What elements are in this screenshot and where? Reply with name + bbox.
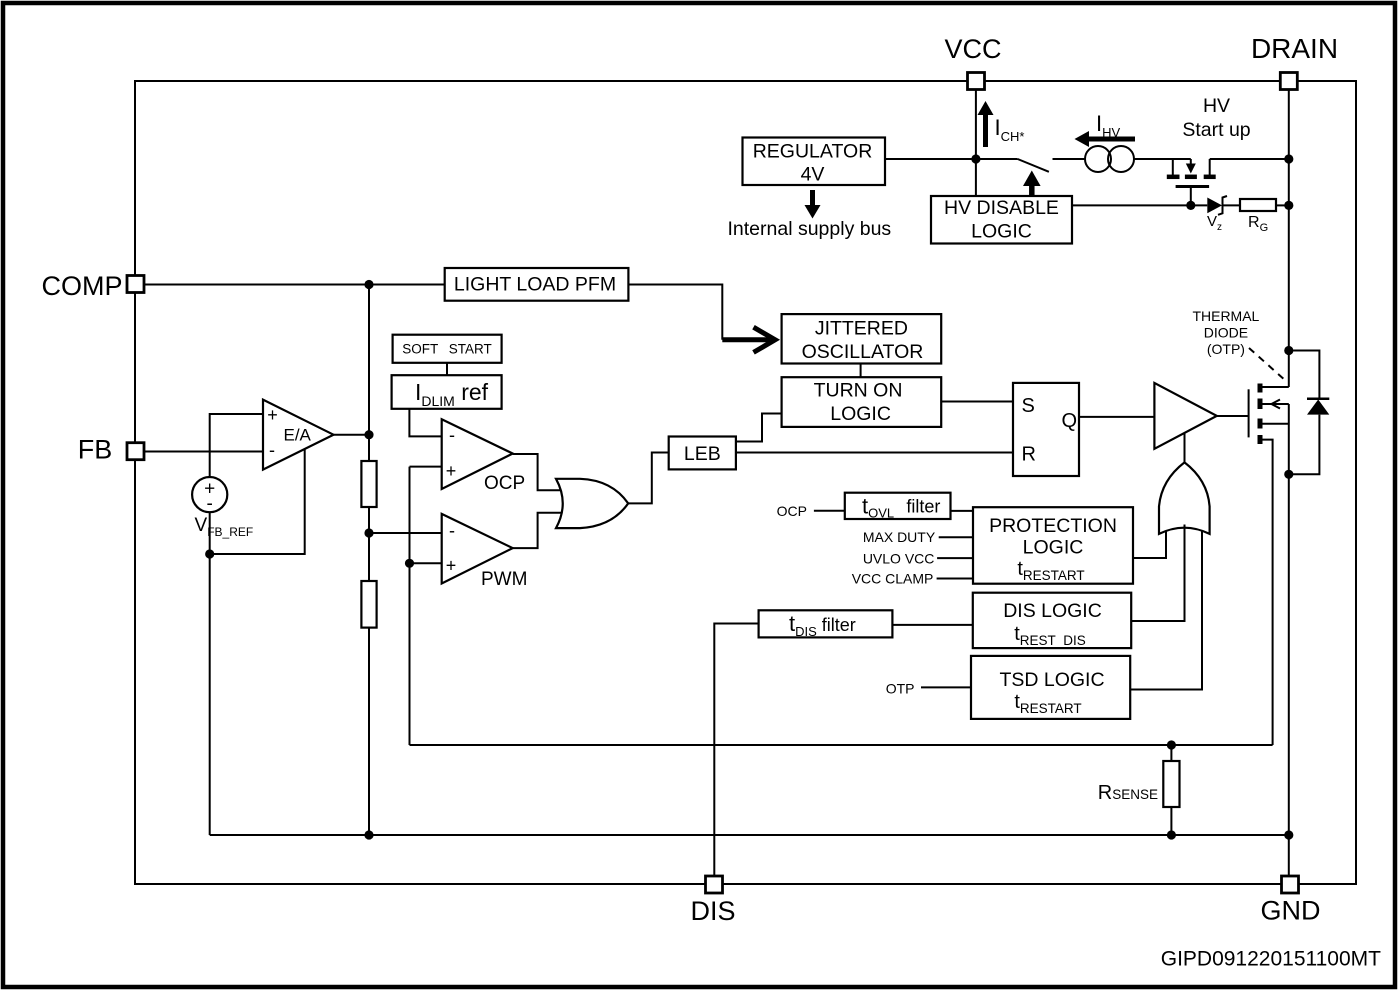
- op-amp PWM comparator: [442, 514, 528, 590]
- regulator U-REG box: [743, 138, 886, 186]
- svg-text:Q: Q: [1062, 410, 1078, 432]
- wire turn on logic to latch S: [941, 401, 1013, 403]
- svg-text:TURN ON: TURN ON: [814, 380, 903, 402]
- wire EA noninverting input to vref: [210, 414, 263, 477]
- svg-text:DIS: DIS: [690, 896, 735, 926]
- transistor Q-HV startup source lead: [1167, 159, 1180, 177]
- svg-text:HV DISABLE: HV DISABLE: [944, 197, 1059, 219]
- transistor Q-HV gate plate: [1176, 187, 1210, 206]
- svg-text:E/A: E/A: [284, 426, 312, 445]
- wire vref junction to gnd rail: [209, 554, 211, 835]
- node VCC-regulator junction: [971, 154, 980, 163]
- transistor Q-HV drain lead: [1204, 159, 1216, 177]
- wire LEB to turn on logic: [736, 414, 782, 442]
- svg-text:MAX DUTY: MAX DUTY: [863, 529, 936, 545]
- svg-text:SOFT START: SOFT START: [402, 342, 492, 357]
- wire M1 body stub with arrow: [1263, 400, 1289, 409]
- svg-text:OCP: OCP: [484, 473, 525, 494]
- svg-text:VCC: VCC: [944, 34, 1001, 64]
- wire DIS pin to tDIS filter: [714, 624, 758, 877]
- svg-text:DRAIN: DRAIN: [1251, 33, 1338, 64]
- wire EA output: [334, 434, 370, 436]
- wire oscillator to turn on logic: [860, 364, 862, 378]
- svg-text:-: -: [449, 521, 455, 541]
- driver buffer U-DRV: [1154, 383, 1216, 449]
- svg-text:LOGIC: LOGIC: [830, 403, 891, 425]
- wire soft start to idlim: [446, 363, 448, 375]
- tDIS filter box: [759, 610, 893, 639]
- diode Vz zener: [1207, 196, 1227, 233]
- svg-text:GIPD091220151100MT: GIPD091220151100MT: [1161, 948, 1381, 971]
- label OTP input: [886, 680, 971, 696]
- arrow to internal supply bus: [805, 190, 821, 219]
- thick arrow into jittered oscillator: [722, 327, 775, 352]
- pin COMP: [42, 271, 145, 301]
- arrow IHV direction: [1075, 111, 1136, 147]
- wire OCP noninverting from sense rail: [410, 466, 442, 468]
- node COMP junction: [364, 280, 373, 289]
- pin GND: [1261, 876, 1321, 926]
- label HV start up: [1182, 95, 1250, 141]
- svg-text:4V: 4V: [801, 164, 825, 186]
- wire sense rail vertical: [409, 467, 411, 745]
- wire tsd logic to or2: [1130, 531, 1202, 690]
- wire current sense rail: [410, 744, 1273, 746]
- switch HV disable: [1018, 159, 1049, 172]
- svg-text:TSD LOGIC: TSD LOGIC: [999, 669, 1104, 691]
- node sense rail junctions: [1167, 740, 1176, 749]
- arrow from HV disable logic to switch: [1023, 171, 1041, 196]
- turn on logic box: [782, 377, 942, 427]
- transistor M1 channel bars: [1258, 384, 1263, 445]
- svg-text:UVLO VCC: UVLO VCC: [863, 551, 935, 567]
- svg-text:+: +: [446, 461, 457, 481]
- wire latch Q to driver: [1079, 416, 1154, 418]
- wire M1 source stub: [1262, 423, 1289, 425]
- wire thermal diode dashed pointer: [1249, 348, 1286, 381]
- svg-text:R: R: [1022, 444, 1036, 466]
- IC boundary rectangle: [135, 81, 1356, 884]
- svg-text:OCP: OCP: [777, 503, 807, 519]
- node rsense bottom junction: [1167, 830, 1176, 839]
- node body diode top junction: [1284, 346, 1293, 355]
- wire FB pin to EA inverting input: [144, 451, 263, 453]
- wire COMP pin to light load pfm: [144, 284, 445, 286]
- node divider gnd junction: [364, 830, 373, 839]
- node vref junction: [205, 549, 214, 558]
- pin FB: [78, 435, 144, 465]
- svg-text:DIODE: DIODE: [1204, 325, 1248, 341]
- transistor Q-HV center arrow: [1185, 159, 1197, 177]
- svg-text:VCC CLAMP: VCC CLAMP: [852, 570, 934, 586]
- jittered oscillator box: [782, 314, 942, 363]
- label UVLO VCC: [863, 551, 973, 567]
- node EA output junction: [364, 430, 373, 439]
- wire gnd rail: [210, 834, 1289, 836]
- wire driver bottom to or2: [1184, 433, 1186, 463]
- label internal supply bus: [728, 218, 892, 240]
- svg-text:PROTECTION: PROTECTION: [989, 515, 1117, 537]
- LEB box: [669, 437, 736, 470]
- node gnd rail right junction: [1284, 830, 1293, 839]
- svg-text:LIGHT LOAD PFM: LIGHT LOAD PFM: [454, 274, 616, 296]
- wire divider mid to PWM inverting: [369, 532, 442, 534]
- wire body diode branch bottom: [1284, 415, 1319, 479]
- wire DRAIN pin down to power mosfet drain: [1288, 90, 1290, 388]
- svg-text:GND: GND: [1261, 896, 1321, 926]
- resistor divider R1: [361, 461, 376, 507]
- wire M1 sense stub down: [1262, 440, 1273, 745]
- wire M1 drain stub: [1262, 386, 1289, 388]
- current source IHV: [1085, 146, 1134, 172]
- svg-text:OSCILLATOR: OSCILLATOR: [802, 341, 924, 363]
- label OCP input: [777, 503, 845, 519]
- wire vref feedback to EA: [210, 450, 305, 555]
- light load PFM box: [445, 268, 629, 301]
- resistor RG: [1240, 199, 1276, 234]
- label MAX DUTY: [863, 529, 973, 545]
- svg-text:-: -: [207, 494, 213, 515]
- wire regulator output to VCC node: [885, 158, 1018, 160]
- or gate U-OR1: [556, 479, 628, 528]
- soft start box: [393, 335, 502, 363]
- wire driver to gate: [1217, 415, 1249, 417]
- wire zener to RG: [1223, 204, 1241, 206]
- latch U-SR box: [1013, 383, 1079, 476]
- label thermal diode: [1192, 308, 1259, 357]
- node DRAIN-HV junction: [1284, 154, 1293, 163]
- wire divider mid: [368, 507, 370, 581]
- svg-text:Start up: Start up: [1182, 119, 1250, 141]
- voltage source VFB_REF: [192, 477, 253, 539]
- pin VCC: [944, 34, 1001, 90]
- svg-text:Internal supply bus: Internal supply bus: [728, 218, 892, 240]
- wire idlim to OCP inverting: [409, 409, 441, 437]
- wire LEB to latch R: [736, 452, 1013, 454]
- wire current source to HV startup fet: [1134, 158, 1191, 160]
- arrow ICH* charge current: [978, 101, 1025, 147]
- protection logic box: [973, 507, 1133, 584]
- wire vref bottom to junction: [209, 512, 211, 554]
- wire RG to DRAIN line: [1276, 201, 1293, 210]
- wire tDIS filter to dis logic: [892, 624, 972, 626]
- wire divider bottom to gnd rail: [368, 628, 370, 835]
- wire PWM output to or gate: [513, 513, 562, 548]
- resistor divider R2: [361, 581, 376, 628]
- pin DIS: [690, 876, 735, 926]
- wire PWM noninverting: [410, 562, 442, 564]
- label part number: [1161, 948, 1381, 971]
- svg-text:-: -: [269, 440, 275, 460]
- wire protection logic to or2: [1133, 531, 1166, 558]
- wire comp node down divider: [368, 285, 370, 462]
- pin DRAIN: [1251, 33, 1338, 90]
- tOVL filter box: [845, 493, 951, 521]
- svg-text:HV: HV: [1203, 95, 1230, 117]
- node sense rail PWM junction: [405, 559, 414, 568]
- svg-text:LOGIC: LOGIC: [1023, 536, 1084, 558]
- svg-text:S: S: [1022, 395, 1035, 417]
- svg-text:PWM: PWM: [481, 569, 527, 590]
- svg-text:FB: FB: [78, 435, 113, 465]
- HV disable logic U-HVD box: [931, 196, 1072, 244]
- or gate U-OR2: [1159, 462, 1210, 534]
- svg-text:+: +: [446, 556, 457, 576]
- wire dis logic to or2: [1131, 525, 1184, 622]
- diode D1 body diode: [1307, 399, 1329, 415]
- svg-text:LEB: LEB: [684, 443, 721, 465]
- wire or1 output to LEB: [628, 453, 669, 504]
- label VCC CLAMP: [852, 570, 973, 586]
- svg-text:(OTP): (OTP): [1207, 341, 1245, 357]
- wire tOVL filter to protection: [951, 510, 974, 512]
- svg-text:-: -: [449, 425, 455, 445]
- op-amp OCP comparator: [442, 419, 525, 494]
- svg-text:LOGIC: LOGIC: [971, 221, 1032, 243]
- svg-text:JITTERED: JITTERED: [815, 318, 908, 340]
- wire body diode branch top: [1289, 351, 1320, 400]
- svg-text:THERMAL: THERMAL: [1192, 308, 1259, 324]
- resistor RSENSE: [1098, 745, 1180, 835]
- wire switch to current source: [1053, 158, 1086, 160]
- svg-text:DIS LOGIC: DIS LOGIC: [1003, 600, 1102, 622]
- Idlim ref box: [392, 375, 502, 409]
- wire HV fet drain to DRAIN line: [1210, 158, 1289, 160]
- node divider mid junction: [364, 528, 373, 537]
- transistor M1 power mosfet gate: [1248, 389, 1250, 437]
- node gate-zener junction: [1186, 201, 1195, 210]
- tsd logic box: [971, 656, 1130, 719]
- svg-text:+: +: [267, 405, 278, 425]
- wire HV disable output to zener: [1072, 204, 1207, 206]
- wire light load pfm to oscillator: [628, 285, 722, 340]
- svg-text:OTP: OTP: [886, 680, 915, 696]
- svg-text:REGULATOR: REGULATOR: [753, 141, 873, 163]
- wire OCP output to or gate: [513, 454, 562, 490]
- svg-text:COMP: COMP: [42, 271, 123, 301]
- dis logic box: [973, 593, 1131, 648]
- op-amp E/A error amplifier: [263, 400, 334, 470]
- wire M1 source down to gnd: [1288, 404, 1290, 876]
- wire VCC pin to HV disable logic: [975, 90, 977, 197]
